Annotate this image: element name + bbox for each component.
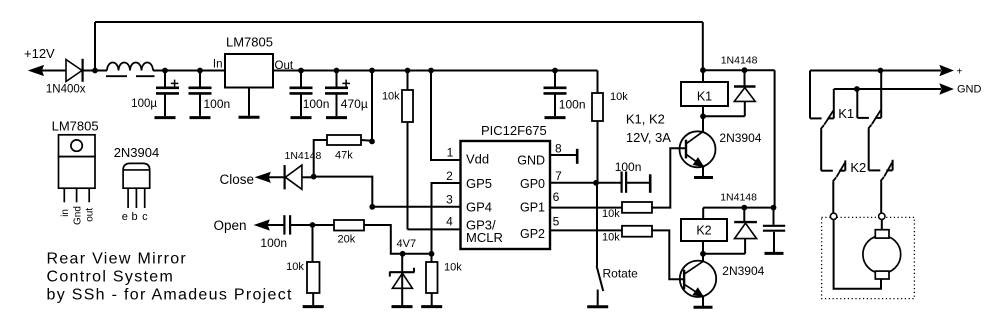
capacitor C7 [773,208,775,225]
relay K2 coil [702,208,704,219]
svg-text:10k: 10k [602,208,620,220]
junction dot close net [311,174,317,180]
junction dot D4 [741,205,747,211]
resistor R1 10k (MCLR pull-up) [407,71,409,91]
wire Q1 emitter to ground [702,166,704,177]
wire diode to junction [83,70,107,72]
transistor Q1 2N3904 [680,131,716,167]
svg-text:20k: 20k [338,233,356,245]
capacitor C8 100n open [283,215,285,234]
wire inductor to LM7805 In [153,70,225,72]
wire pin7 GP0 [550,182,622,184]
svg-text:1N4148: 1N4148 [285,150,322,162]
wire K1 row to K2 row [774,70,776,207]
junction dot K1 bottom [700,113,706,119]
ground zener [392,305,413,308]
svg-text:+12V: +12V [24,46,55,61]
wire rail to pin1 Vdd [431,71,461,161]
svg-text:In: In [213,59,223,71]
ground C7 [765,252,784,255]
wire K2b common to motor [880,181,882,213]
svg-text:GP5: GP5 [466,176,492,191]
svg-text:MCLR: MCLR [466,230,503,245]
svg-text:100n: 100n [303,97,330,111]
wire pin5 GP2 [550,229,622,231]
junction dot K1 top [700,67,706,73]
junction dot C5 [552,68,558,74]
svg-text:6: 6 [553,190,560,204]
junction dot D3 [742,67,748,73]
svg-text:b: b [132,211,138,223]
junction dot + line [878,68,884,74]
resistor R8 10k base Q2 [622,226,652,237]
svg-text:GP4: GP4 [466,200,492,215]
svg-text:PIC12F675: PIC12F675 [481,123,547,138]
capacitor C1 100u [164,71,166,87]
wire rail to 47k [371,71,373,142]
wire Q2 collector [702,254,704,262]
svg-text:GND: GND [957,84,982,96]
svg-text:10k: 10k [382,91,400,103]
junction node A (12V rail) [92,68,98,74]
node +12V input arrow [30,66,43,75]
wire R8 to Q2 base [652,230,684,279]
wire Open arrow to cap [267,224,284,226]
junction dot GND line [854,86,860,92]
svg-text:Open: Open [214,218,247,233]
junction dot open net [310,222,316,228]
inductor L1 [107,63,153,71]
svg-text:e: e [122,211,128,223]
junction dot 47k riser [369,68,375,74]
svg-text:2N3904: 2N3904 [114,145,160,160]
svg-text:c: c [142,211,148,223]
svg-text:by SSh - for Amadeus Project: by SSh - for Amadeus Project [47,286,293,303]
resistor R4 10k open pulldown [312,225,314,262]
svg-text:K1: K1 [838,106,854,121]
resistor R2 10k (GP0 pull-up) [597,71,599,94]
capacitor C3 100n [300,71,302,87]
ground bar pin8 [576,149,579,164]
svg-text:GND: GND [517,153,545,167]
relay contact K1a [809,71,811,119]
svg-text:Rear View Mirror: Rear View Mirror [47,250,188,267]
node GND output arrow [834,88,941,90]
svg-text:10k: 10k [286,261,304,273]
wire R7 to Q1 base [652,148,686,207]
svg-text:12V, 3A: 12V, 3A [626,130,671,145]
wire motor loop [834,220,881,289]
wire pin4 GP3 [408,228,461,230]
svg-text:Gnd: Gnd [72,206,83,225]
wire R1 to pin4 GP3/MCLR [407,122,409,229]
wire riser to top rail [94,22,96,71]
svg-text:10k: 10k [444,262,462,274]
relay contact K1b [856,89,858,118]
svg-text:LM7805: LM7805 [52,119,99,134]
junction dot Vdd riser [428,68,434,74]
wire K1 top to flyback diode [703,69,775,71]
ground R6 [421,305,442,308]
switch Rotate [596,183,598,266]
transistor Q2 2N3904 [680,261,716,297]
svg-text:47k: 47k [335,150,353,162]
diode D1 1N400x [66,60,82,82]
resistor R3 47k pull-up [314,140,327,177]
ground Rotate [587,305,608,308]
wire pin6 GP1 [550,207,622,209]
ground Q2 [694,306,713,309]
svg-text:8: 8 [555,142,562,156]
resistor R7 10k base Q1 [622,202,652,213]
svg-text:Rotate: Rotate [603,266,639,280]
svg-text:2: 2 [446,169,453,183]
svg-text:470µ: 470µ [341,97,368,111]
wire Q1 collector [702,116,704,132]
capacitor C4 470u [336,71,338,87]
svg-text:1: 1 [447,146,454,160]
capacitor C5 100n [554,71,556,87]
junction dot C3 [298,68,304,74]
junction dot 47k right [369,139,375,145]
svg-text:3: 3 [446,193,453,207]
wire K2a common to motor [832,181,834,213]
svg-text:7: 7 [555,169,562,183]
mirror assembly dotted box [822,217,915,298]
wire close net to pin3 [314,177,373,207]
svg-text:K1, K2: K1, K2 [626,112,665,127]
svg-text:10k: 10k [602,232,620,244]
junction dot R1 10k [405,68,411,74]
svg-text:in: in [60,209,71,217]
svg-text:4V7: 4V7 [397,238,417,250]
diode D2 1N4148 close [284,165,286,189]
svg-text:100n: 100n [615,160,642,174]
wire pin3 GP4 [372,206,460,208]
wire top rail to relay K1 [95,21,703,23]
svg-text:1N4148: 1N4148 [720,192,757,204]
svg-text:Vdd: Vdd [466,151,489,166]
wire pin2 GP5 [432,183,461,254]
svg-text:4: 4 [446,214,453,228]
svg-text:100n: 100n [204,97,231,111]
svg-text:100n: 100n [260,236,287,250]
wire 20k to GP5 net [364,225,432,254]
svg-text:K2: K2 [850,160,866,175]
ground Q1 [694,176,713,179]
svg-text:Close: Close [220,172,255,187]
resistor R5 20k [313,224,335,226]
junction dot pin3 corner [369,204,375,210]
wire Q2 emitter to ground [702,296,704,306]
motor terminal left [830,213,836,219]
svg-text:out: out [85,208,96,222]
svg-text:K2: K2 [696,224,711,238]
capacitor C2 100n [199,71,201,87]
svg-text:10k: 10k [610,91,628,103]
svg-text:2N3904: 2N3904 [722,264,764,278]
junction dot C7 top [771,205,777,211]
svg-text:Control System: Control System [47,268,175,285]
wire K1b common to K2b [868,129,870,171]
wire pin8 GND [550,154,577,156]
svg-text:2N3904: 2N3904 [719,131,761,145]
junction dot K2 bottom [700,251,706,257]
svg-text:100µ: 100µ [131,98,157,110]
relay contact K2a [844,160,846,170]
junction dot GP5 net [429,251,435,257]
op-amp U1 PIC12F675 body [461,141,551,249]
svg-text:100n: 100n [559,98,586,112]
svg-text:+: + [957,67,963,78]
svg-text:GP1: GP1 [520,201,545,215]
svg-text:K1: K1 [697,89,712,103]
wire K1a common to K2a [820,129,822,171]
relay contact K2b [892,160,894,171]
svg-text:1N400x: 1N400x [46,84,86,96]
capacitor C6 100n GP0 [620,172,622,193]
relay K1 coil [702,70,704,82]
wire K2 top row [703,207,774,209]
regulator U2 LM7805 [225,54,273,88]
svg-text:5: 5 [553,215,560,229]
resistor R6 10k GP5 pulldown [431,254,433,262]
wire Out rail [273,70,598,72]
motor M1 [863,236,901,274]
ground open pulldown [303,305,324,308]
junction dot C4 [334,68,340,74]
junction dot C1 [162,68,168,74]
wire Close arrow to diode [268,176,285,178]
svg-text:1N4148: 1N4148 [721,55,758,67]
node + output arrow [810,70,941,72]
motor terminal right [879,213,885,219]
junction dot zener [400,251,406,257]
junction dot pin7 [593,180,599,186]
svg-text:GP2: GP2 [520,227,545,241]
svg-text:GP0: GP0 [520,177,545,191]
wire +12V to diode [42,70,67,72]
ground of LM7805 [248,88,250,116]
junction dot C2 [197,68,203,74]
ground bar C6 [649,174,652,193]
svg-text:LM7805: LM7805 [226,35,273,50]
